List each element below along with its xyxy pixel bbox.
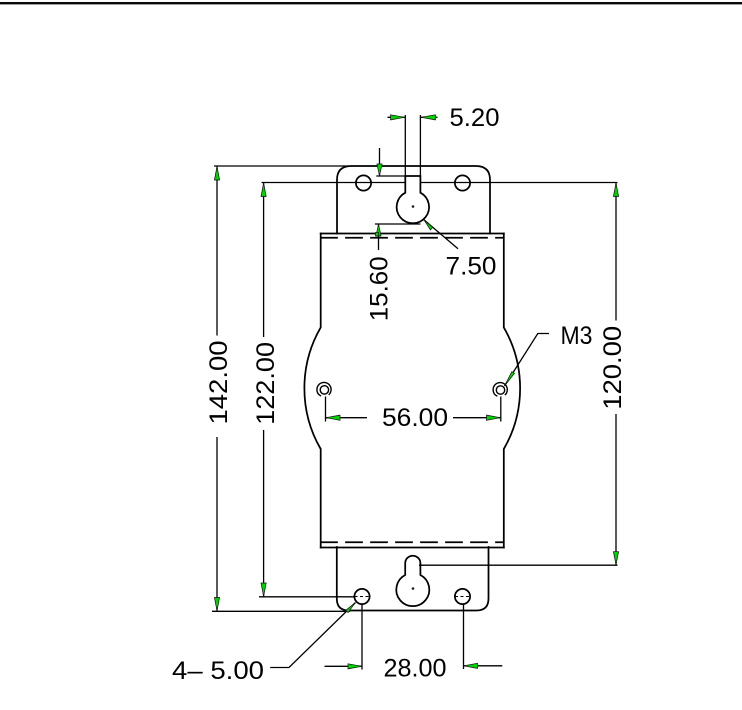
leader 4-5.00 [270,603,355,668]
arrow 142 bottom [214,598,219,611]
arrow 56.00 right [487,415,501,420]
leader 7.50 [423,219,458,249]
arrow 15.60 bottom [376,224,381,236]
M3 screw hole right [496,386,504,394]
leader M3 [505,334,550,387]
M3 screw hole left [320,386,328,394]
top flange outline [337,166,490,234]
bottom flange hole right [455,589,470,604]
svg-text:M3: M3 [561,322,593,350]
page top rule [0,2,742,4]
body bottom edge [321,547,504,549]
svg-text:28.00: 28.00 [384,655,447,683]
extension line bottom (120) [419,564,618,566]
arrow 28.00 right [464,663,478,668]
extension line bottom (142) [212,610,350,612]
svg-text:15.60: 15.60 [365,256,393,321]
hidden edge dashed bottom [321,541,504,543]
center dot top keyhole [412,205,415,208]
extension line 15.60 top [376,175,405,177]
svg-text:4– 5.00: 4– 5.00 [172,657,264,685]
dimension line 56.00 [326,417,501,419]
svg-text:7.50: 7.50 [446,253,497,281]
arrow 15.60 top [377,164,382,176]
extension lines 56.00 [326,397,501,422]
arrow leader 7.50 [424,220,432,230]
crossing dot 15.60 [376,233,379,237]
extension line top (142) [214,165,349,167]
svg-text:120.00: 120.00 [599,326,627,410]
svg-text:122.00: 122.00 [252,342,280,425]
svg-text:56.00: 56.00 [382,404,448,432]
arrow leader 4-5.00 [346,603,356,613]
body left edge with outward arc [304,234,320,548]
bottom flange outline [337,547,489,611]
dimension line 15.60 top tail [379,148,381,176]
center dot bottom keyhole [412,587,415,590]
arrow 120 top [613,183,618,197]
svg-text:142.00: 142.00 [205,341,233,425]
extension lines 5.20 [405,115,420,176]
arrow 120 bottom [613,552,618,565]
arrow 28.00 left [348,664,362,669]
dimension line 15.60 bottom tail [378,224,380,250]
dimension tails 5.20 [388,116,438,118]
top flange hole right [455,175,470,190]
arrow 5.20 right [421,115,436,120]
hidden edge dashed top [321,237,504,239]
center line through top holes / extension 122-120 [262,182,618,184]
svg-text:5.20: 5.20 [450,104,500,132]
top flange hole left [356,175,371,190]
body top edge [321,233,504,235]
extension line bottom (122) [259,596,355,598]
arrow 56.00 left [326,415,340,420]
bottom flange hole left [354,589,369,604]
bottom keyhole slot [396,556,429,606]
dimension line 120.00 vertical [615,183,617,566]
top keyhole slot [397,176,429,223]
extension line 15.60 bottom [375,223,421,225]
arrow 142 top [214,167,219,181]
arrow leader M3 [505,372,515,386]
center mark bottom hole left [355,596,370,598]
arrow 122 top [261,183,266,197]
arrow 122 bottom [261,583,266,596]
extension lines 28.00 [362,605,464,670]
dimension line 142.00 vertical [216,166,218,611]
body right edge with outward arc [504,234,520,548]
dimension tails 28.00 [325,665,503,668]
center mark bottom hole right [455,596,470,598]
dimension line 122.00 vertical [263,183,265,597]
arrow 5.20 left [391,115,405,120]
